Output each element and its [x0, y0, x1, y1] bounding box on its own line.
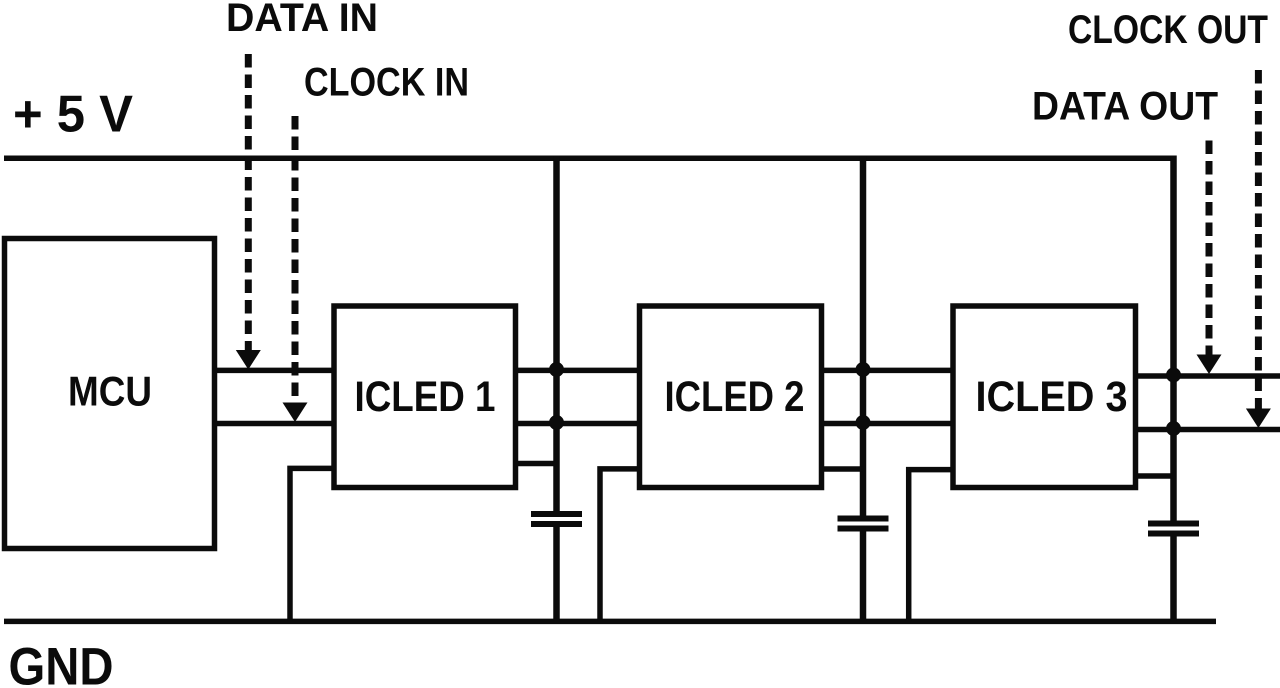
+5V power rail: [4, 156, 1177, 162]
arrow line DATA IN: [245, 54, 252, 351]
wire data bus MCU to ICLED3: [215, 368, 954, 374]
arrowhead CLOCK IN: [283, 403, 308, 423]
svg-text:ICLED 2: ICLED 2: [665, 373, 805, 421]
wire data out segment: [1136, 373, 1280, 379]
arrow line CLOCK IN: [292, 116, 299, 403]
svg-text:ICLED 3: ICLED 3: [976, 373, 1128, 421]
svg-text:DATA IN: DATA IN: [226, 0, 378, 40]
junction dot clock out / drop 3: [1166, 421, 1181, 436]
wire GND pin ICLED1: [290, 468, 334, 621]
svg-text:+ 5 V: + 5 V: [13, 86, 133, 144]
capacitor C1: [531, 514, 582, 524]
ICLED1 box: [334, 306, 516, 488]
MCU box: [5, 239, 215, 549]
wire VDD pin ICLED1: [516, 461, 557, 467]
wire vertical 5V drop 2: [860, 156, 867, 622]
wire VDD pin ICLED3: [1136, 473, 1174, 479]
wire vertical 5V drop 1: [553, 156, 560, 622]
wire VDD pin ICLED2: [822, 466, 864, 472]
capacitor C2: [838, 519, 889, 529]
wire GND pin ICLED2: [600, 469, 640, 621]
arrowhead DATA IN: [236, 350, 261, 370]
ICLED3 box: [953, 306, 1136, 488]
svg-text:DATA OUT: DATA OUT: [1032, 85, 1218, 129]
svg-text:MCU: MCU: [68, 368, 152, 415]
arrowhead CLOCK OUT: [1246, 409, 1271, 429]
wire GND pin ICLED3: [909, 470, 953, 621]
wire vertical 5V drop 3: [1170, 156, 1177, 622]
svg-text:CLOCK OUT: CLOCK OUT: [1068, 8, 1268, 52]
wire clock out segment: [1136, 427, 1280, 433]
junction dot data out / drop 3: [1166, 368, 1181, 383]
arrow line DATA OUT: [1206, 141, 1213, 356]
arrow line CLOCK OUT: [1255, 70, 1262, 409]
capacitor C3: [1148, 524, 1199, 534]
svg-text:CLOCK IN: CLOCK IN: [304, 61, 469, 105]
junction dot data / drop 2: [856, 362, 871, 377]
junction dot data / drop 1: [549, 362, 564, 377]
junction dot clock / drop 2: [856, 415, 871, 430]
arrowhead DATA OUT: [1197, 355, 1222, 375]
svg-text:ICLED 1: ICLED 1: [355, 373, 496, 421]
wire clock bus MCU to ICLED3: [215, 421, 954, 427]
ICLED2 box: [640, 306, 822, 488]
GND rail: [4, 619, 1216, 625]
svg-text:GND: GND: [9, 638, 114, 688]
junction dot clock / drop 1: [549, 415, 564, 430]
